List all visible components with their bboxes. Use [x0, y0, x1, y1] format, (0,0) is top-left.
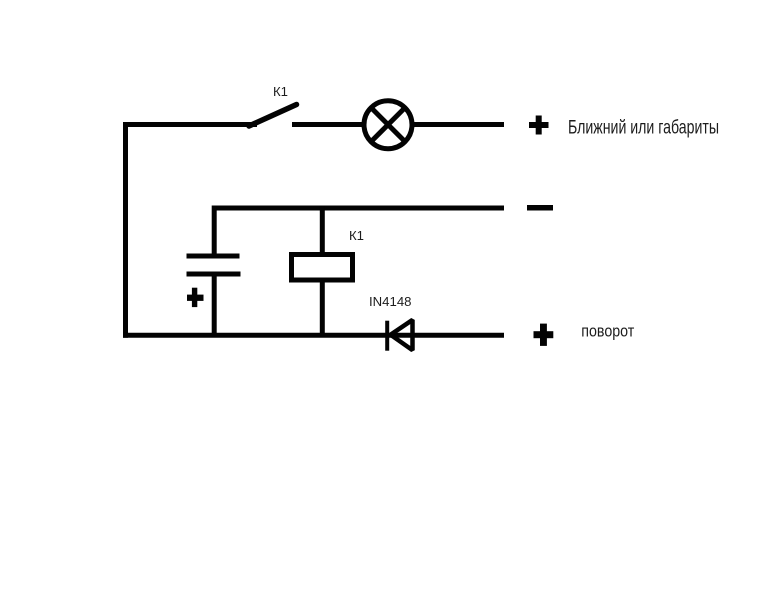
- svg-text:Ближний или габариты: Ближний или габариты: [568, 118, 719, 139]
- wire: top rail left segment: [123, 122, 257, 127]
- svg-text:К1: К1: [349, 229, 364, 243]
- relay K1 coil bottom lead: [320, 280, 325, 337]
- capacitor C1 top lead: [212, 206, 217, 257]
- switch K1 blade: [249, 105, 297, 127]
- capacitor C1 bottom lead: [212, 274, 217, 337]
- svg-text:IN4148: IN4148: [369, 295, 412, 309]
- plus terminal (Ближний): [529, 116, 549, 135]
- wire: middle rail (minus): [212, 206, 504, 211]
- wire: switch to lamp: [292, 122, 364, 127]
- wire: lamp to plus terminal: [413, 122, 504, 127]
- wire: bottom rail: [123, 333, 504, 338]
- diode VD1: [387, 320, 412, 351]
- capacitor C1 plates: [187, 256, 241, 274]
- minus terminal: [527, 205, 553, 211]
- lamp HL1: [364, 101, 412, 149]
- svg-text:К1: К1: [273, 85, 288, 99]
- wire: left vertical bus: [123, 122, 128, 338]
- relay K1 coil: [292, 255, 353, 281]
- capacitor polarity plus: [187, 288, 204, 307]
- svg-text:поворот: поворот: [581, 323, 634, 341]
- relay K1 coil top lead: [320, 206, 325, 255]
- plus terminal (поворот): [534, 324, 554, 346]
